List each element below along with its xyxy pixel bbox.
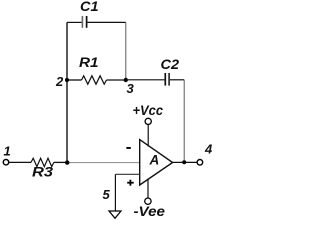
svg-text:3: 3 bbox=[127, 81, 135, 96]
op-amp A bbox=[140, 140, 173, 185]
svg-text:1: 1 bbox=[4, 144, 11, 159]
wire: C2 right vertical down to output node bbox=[183, 80, 185, 163]
wire: C1 right vertical down to node 3 bbox=[125, 22, 127, 79]
svg-text:C2: C2 bbox=[161, 57, 180, 72]
node: summing junction dot bbox=[65, 160, 69, 164]
+Vcc supply terminal bbox=[133, 103, 164, 147]
svg-text:5: 5 bbox=[103, 187, 111, 202]
inverting input minus sign bbox=[126, 147, 130, 149]
resistor R1 bbox=[67, 55, 126, 84]
capacitor C1 bbox=[67, 0, 126, 28]
svg-text:2: 2 bbox=[55, 74, 64, 89]
-Vee supply terminal bbox=[134, 179, 166, 219]
svg-text:+Vcc: +Vcc bbox=[133, 103, 164, 118]
node 2 bbox=[55, 74, 69, 89]
wire: ground column vertical bbox=[114, 174, 116, 210]
svg-text:4: 4 bbox=[204, 142, 213, 157]
non-inverting input plus sign bbox=[127, 180, 134, 186]
ground bbox=[109, 211, 121, 218]
wire: op-amp output bbox=[173, 161, 198, 163]
node 3 bbox=[124, 78, 135, 96]
wire: summing junction to inverting input bbox=[67, 162, 139, 164]
wire: left vertical rail (node 2 column) bbox=[66, 22, 68, 162]
svg-text:A: A bbox=[149, 153, 160, 168]
svg-text:-Vee: -Vee bbox=[134, 204, 166, 219]
svg-text:R1: R1 bbox=[79, 55, 99, 70]
capacitor C2 bbox=[126, 57, 184, 86]
node 4 output terminal bbox=[197, 142, 213, 166]
node: output junction dot bbox=[182, 160, 186, 164]
resistor R3 bbox=[9, 158, 67, 179]
node 1 input terminal bbox=[3, 144, 10, 165]
wire: non-inverting input to ground column bbox=[115, 173, 139, 175]
svg-text:C1: C1 bbox=[80, 0, 99, 14]
svg-text:R3: R3 bbox=[32, 165, 54, 180]
